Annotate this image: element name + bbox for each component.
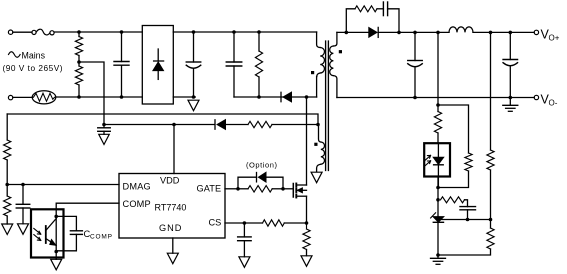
capacitor CCOMP	[56, 216, 82, 250]
wire source to CS node	[305, 196, 309, 225]
terminal VO-	[534, 95, 538, 99]
wire CS resistor to source	[284, 222, 306, 224]
svg-text:GATE: GATE	[197, 184, 222, 194]
wire DMAG sense line	[7, 114, 318, 125]
resistor VDD	[248, 121, 272, 127]
wire clamp bottom line	[234, 95, 317, 99]
transformer primary winding	[317, 32, 325, 77]
shunt regulator TL431	[431, 213, 444, 255]
op-amp U1 RT7740 box	[119, 174, 225, 239]
transformer auxiliary winding	[317, 125, 325, 172]
svg-text:DMAG: DMAG	[123, 182, 151, 192]
wire COMP to opto	[54, 203, 119, 218]
wire VDD pin riser	[173, 125, 175, 174]
wire VDD line left	[102, 123, 215, 127]
thermistor NTC	[32, 91, 56, 104]
transformer secondary winding	[330, 32, 337, 97]
capacitor CS filter	[238, 223, 252, 257]
label GATE pin	[197, 184, 222, 194]
wire bridge bottom to bulk cap	[173, 96, 195, 98]
wire LED to TL431	[436, 177, 440, 217]
wire divider tap to VDD feed	[79, 62, 104, 125]
wire GATE pin	[225, 187, 240, 191]
svg-text:Mains: Mains	[22, 51, 46, 61]
resistor current sense	[303, 223, 310, 256]
wire secondary top rail	[337, 31, 369, 35]
label CCOMP	[84, 229, 113, 241]
wire DMAG to IC	[7, 184, 119, 186]
wire VDD line right	[226, 123, 320, 127]
wire inductor to output	[473, 31, 534, 35]
wire GND pin	[172, 238, 174, 253]
label (Option)	[246, 161, 278, 170]
diode gate option branch	[238, 172, 283, 189]
optocoupler LED box	[424, 143, 450, 176]
ground VDD cap	[99, 131, 110, 144]
wire rectifier to caps	[379, 31, 450, 35]
resistor DMAG lower	[4, 183, 11, 224]
resistor opto LED series	[434, 112, 441, 144]
svg-text:O+: O+	[549, 33, 560, 42]
wire bridge to primary rail	[173, 31, 316, 33]
ground sense resistor	[301, 256, 312, 266]
diode VDD rectifier	[215, 120, 226, 130]
phototransistor of optocoupler	[46, 216, 58, 259]
label COMP pin	[123, 199, 151, 209]
wire opto LED feed	[436, 32, 440, 111]
terminal VO+	[534, 30, 538, 34]
polarity dot secondary	[339, 50, 342, 53]
wire NTC to bridge (bottom mains rail)	[56, 96, 143, 98]
svg-text:(Option): (Option)	[246, 161, 278, 170]
resistor clamp	[255, 30, 262, 97]
terminal AC neutral input	[8, 95, 12, 99]
resistor gate	[238, 186, 285, 192]
resistor feedback compensation	[441, 197, 468, 207]
capacitor feedback compensation	[460, 207, 476, 220]
resistor feedback divider upper	[487, 150, 494, 220]
capacitor clamp	[226, 30, 242, 97]
svg-text:(90 V to 265V): (90 V to 265V)	[3, 63, 64, 73]
ground earth output	[503, 98, 518, 112]
ground opto emitter	[51, 259, 62, 270]
capacitor bulk electrolytic	[186, 30, 201, 99]
label (90V to 265V)	[3, 63, 64, 73]
svg-text:VDD: VDD	[160, 176, 180, 186]
wire fuse to bridge (top mains rail)	[54, 31, 142, 33]
inductor output filter	[449, 27, 473, 32]
wire TL431 ref line	[441, 218, 493, 222]
capacitor output second	[503, 32, 518, 99]
resistor DMAG upper	[4, 114, 11, 185]
svg-text:RT7740: RT7740	[155, 203, 187, 213]
ground DMAG divider	[2, 224, 13, 235]
capacitor input filter	[114, 30, 129, 99]
ground auxiliary winding	[311, 172, 322, 183]
label DMAG pin	[123, 182, 151, 192]
wire clamp to primary winding bottom	[316, 77, 318, 98]
resistor input divider lower	[75, 60, 82, 99]
ground earth TL431	[431, 255, 446, 264]
ground IC GND	[167, 253, 178, 264]
light arrows into phototransistor	[34, 228, 41, 240]
wire drain to clamp node	[306, 97, 308, 185]
label RT7740	[155, 203, 187, 213]
label CS pin	[209, 218, 222, 228]
svg-text:COMP: COMP	[90, 234, 113, 241]
label VDD pin	[160, 176, 180, 186]
label ~Mains	[9, 51, 46, 61]
bridge rectifier BD1	[142, 26, 173, 105]
terminal AC line input	[8, 30, 12, 34]
label GND pin	[159, 223, 182, 233]
wire secondary bottom rail	[337, 97, 534, 99]
wire feedback divider upper	[490, 32, 492, 150]
ground CS cap	[239, 257, 250, 268]
light arrows from LED	[425, 155, 430, 165]
resistor secondary snubber	[346, 6, 377, 33]
capacitor output first	[408, 32, 423, 99]
svg-text:COMP: COMP	[123, 199, 151, 209]
svg-text:CS: CS	[209, 218, 222, 228]
LED of optocoupler	[433, 143, 444, 187]
diode output rectifier	[369, 27, 378, 37]
resistor parallel opto	[438, 105, 472, 188]
ground primary (bulk cap)	[188, 100, 199, 111]
polarity dot primary	[311, 71, 314, 74]
svg-text:GND: GND	[159, 223, 182, 233]
capacitor VDD bypass	[98, 125, 111, 132]
wire terminal to fuse	[13, 31, 32, 33]
polarity dot auxiliary	[314, 143, 317, 146]
wire CS pin	[225, 221, 263, 225]
wire gate to MOSFET	[283, 188, 293, 190]
ground DMAG cap	[18, 224, 29, 235]
resistor CS filter	[263, 220, 285, 226]
svg-text:O-: O-	[549, 98, 558, 107]
capacitor secondary snubber	[377, 2, 399, 32]
resistor input divider upper	[75, 30, 82, 62]
transistor Q1 MOSFET	[293, 184, 306, 198]
label VO-	[541, 92, 558, 107]
optocoupler transistor box	[31, 209, 64, 257]
capacitor DMAG filter	[16, 183, 30, 224]
label VO+	[541, 27, 560, 42]
transformer core	[326, 41, 329, 171]
fuse F1	[32, 29, 54, 35]
resistor feedback divider lower	[436, 220, 494, 257]
diode clamp	[281, 92, 292, 102]
wire terminal to NTC	[13, 96, 33, 98]
